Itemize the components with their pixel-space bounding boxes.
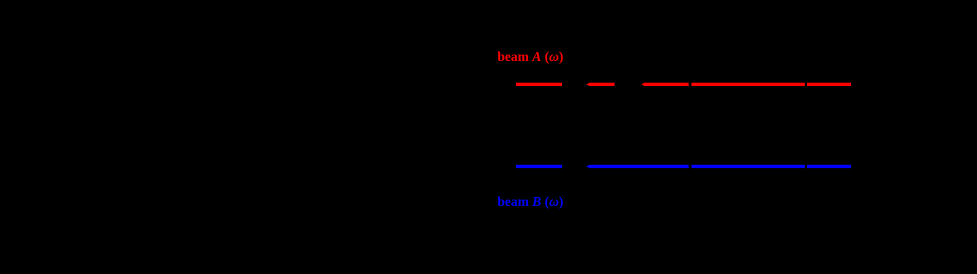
beam A arrow tip 2 (left-pointing)	[641, 83, 645, 86]
beam A wire segment 1	[516, 83, 562, 86]
beam A wire segment 2	[589, 83, 615, 86]
beam A wire segment 5	[807, 83, 851, 86]
beam B wire segment 2	[589, 165, 689, 168]
beam A wire segment 4	[691, 83, 805, 86]
beam A label (red)	[497, 49, 563, 64]
beam A wire segment 3	[644, 83, 689, 86]
beam B wire segment 3	[691, 165, 805, 168]
beam B wire segment 4	[807, 165, 851, 168]
beam B label (blue)	[497, 194, 563, 209]
svg-text:beam B (ω): beam B (ω)	[497, 194, 563, 209]
beam B arrow tip (left-pointing)	[586, 165, 590, 168]
beam A arrow tip 1 (left-pointing)	[586, 83, 590, 86]
svg-text:beam A (ω): beam A (ω)	[497, 49, 563, 64]
beam B wire segment 1	[516, 165, 562, 168]
